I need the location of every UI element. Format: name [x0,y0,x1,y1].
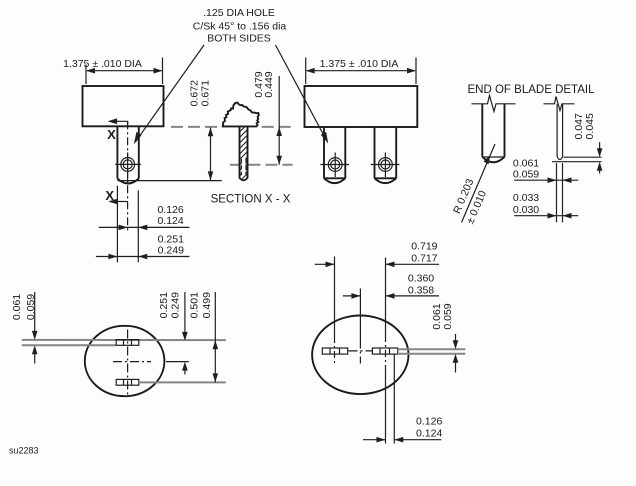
dim 0.501/0.499 right [189,292,218,382]
svg-text:C/Sk 45° to .156 dia: C/Sk 45° to .156 dia [193,21,287,33]
blade edge lines extending right [398,349,466,354]
center lines [113,330,151,396]
svg-text:0.059: 0.059 [442,303,454,329]
VIEW 2: body outline [305,86,418,127]
svg-text:SECTION X - X: SECTION X - X [211,193,291,205]
svg-text:0.059: 0.059 [513,169,539,181]
note text: hole callout [193,7,287,45]
svg-text:0.126: 0.126 [416,415,442,427]
right slot [372,348,397,354]
dim 0.360/0.358 [343,272,439,298]
leader to right view hole [276,45,329,144]
svg-text:X: X [105,188,114,203]
VIEW 1: blade hole [115,153,141,185]
VIEW 2: left blade [324,127,345,183]
hole hidden lines in section [242,159,246,175]
DETAIL: dim 0.061/0.059 [513,157,578,183]
svg-text:1.375 ± .010 DIA: 1.375 ± .010 DIA [320,58,399,70]
SECTION: hatched blade [230,106,260,213]
top slot [116,340,139,346]
svg-text:0.501: 0.501 [189,292,201,318]
dim 0.061/0.059 right [431,303,458,372]
VIEW 1: dimension 1.375 dia [63,58,162,85]
DETAIL: radius leader R0.203 [451,144,495,226]
DETAIL: extension lines below [557,163,563,222]
svg-text:X: X [107,127,116,142]
VIEW 2: right blade [375,127,397,183]
VIEW 1: dim 0.251/0.249 [96,234,190,260]
svg-text:0.499: 0.499 [201,292,213,318]
VIEW 2: left blade hole [320,153,349,178]
SECTION: dim 0.479/0.449 [253,71,282,165]
SECTION: gray datum dashes lower (hole level) [230,164,293,166]
svg-text:0.124: 0.124 [416,428,442,440]
DETAIL: dim 0.033/0.030 [513,192,578,219]
svg-text:0.249: 0.249 [169,292,181,318]
svg-text:0.126: 0.126 [157,204,183,216]
svg-text:0.124: 0.124 [157,215,183,227]
svg-text:0.061: 0.061 [513,157,539,169]
svg-text:0.717: 0.717 [411,252,437,264]
leader to left view hole [134,45,204,144]
svg-text:0.251: 0.251 [158,234,184,246]
blade edge lines extending left [22,340,226,345]
svg-text:0.033: 0.033 [513,192,539,204]
VIEW 2: dimension 1.375 dia [306,58,416,85]
svg-text:0.672: 0.672 [188,80,200,106]
dim 0.251/0.249 right [158,292,188,375]
svg-text:END OF BLADE DETAIL: END OF BLADE DETAIL [468,84,596,96]
extension verticals [335,257,395,444]
svg-text:0.360: 0.360 [408,272,434,284]
VIEW 2: right blade hole [371,153,400,178]
VIEW 1: dim 0.126/0.124 [99,204,190,230]
svg-text:0.251: 0.251 [158,292,170,318]
svg-text:0.061: 0.061 [11,294,23,320]
VIEW 1: section line X-X [108,118,128,232]
svg-text:0.449: 0.449 [263,71,275,97]
SECTION: body blob outline [223,103,259,127]
dim 0.719/0.717 [315,240,439,267]
left slot [322,348,347,354]
SECTION: dim 0.672/0.671 [188,80,213,180]
VIEW 1: datum line from blade bottom [117,180,221,182]
svg-text:0.719: 0.719 [411,240,437,252]
svg-text:BOTH SIDES: BOTH SIDES [207,33,271,45]
svg-text:0.249: 0.249 [158,245,184,257]
svg-text:0.671: 0.671 [200,80,212,106]
DETAIL: dim 0.047/0.045 [552,113,602,173]
center crosshair [349,350,373,352]
svg-text:1.375 ± .010 DIA: 1.375 ± .010 DIA [63,58,142,70]
DETAIL: right blade edge [544,97,575,160]
bottom slot [116,379,139,385]
SECTION: gray datum dashes upper [171,126,293,128]
VIEW 1: body outline [83,86,164,126]
svg-text:0.358: 0.358 [408,284,434,296]
svg-text:.125 DIA HOLE: .125 DIA HOLE [203,7,275,19]
dim 0.061/0.059 left [11,292,38,364]
svg-text:su2283: su2283 [9,446,39,456]
bottom slot line extending right [139,381,226,383]
VIEW 1: lower extension lines [117,186,138,263]
svg-text:0.030: 0.030 [513,204,539,216]
DETAIL: left blade front [472,96,516,163]
BOTTOM RIGHT VIEW: plug face ellipse [312,316,408,395]
svg-text:0.045: 0.045 [584,113,596,139]
dim 0.126/0.124 bottom [363,415,442,442]
VIEW 1: blade outline [117,126,138,183]
center line extending right [166,361,189,363]
BOTTOM LEFT VIEW: plug face circle [85,326,165,396]
